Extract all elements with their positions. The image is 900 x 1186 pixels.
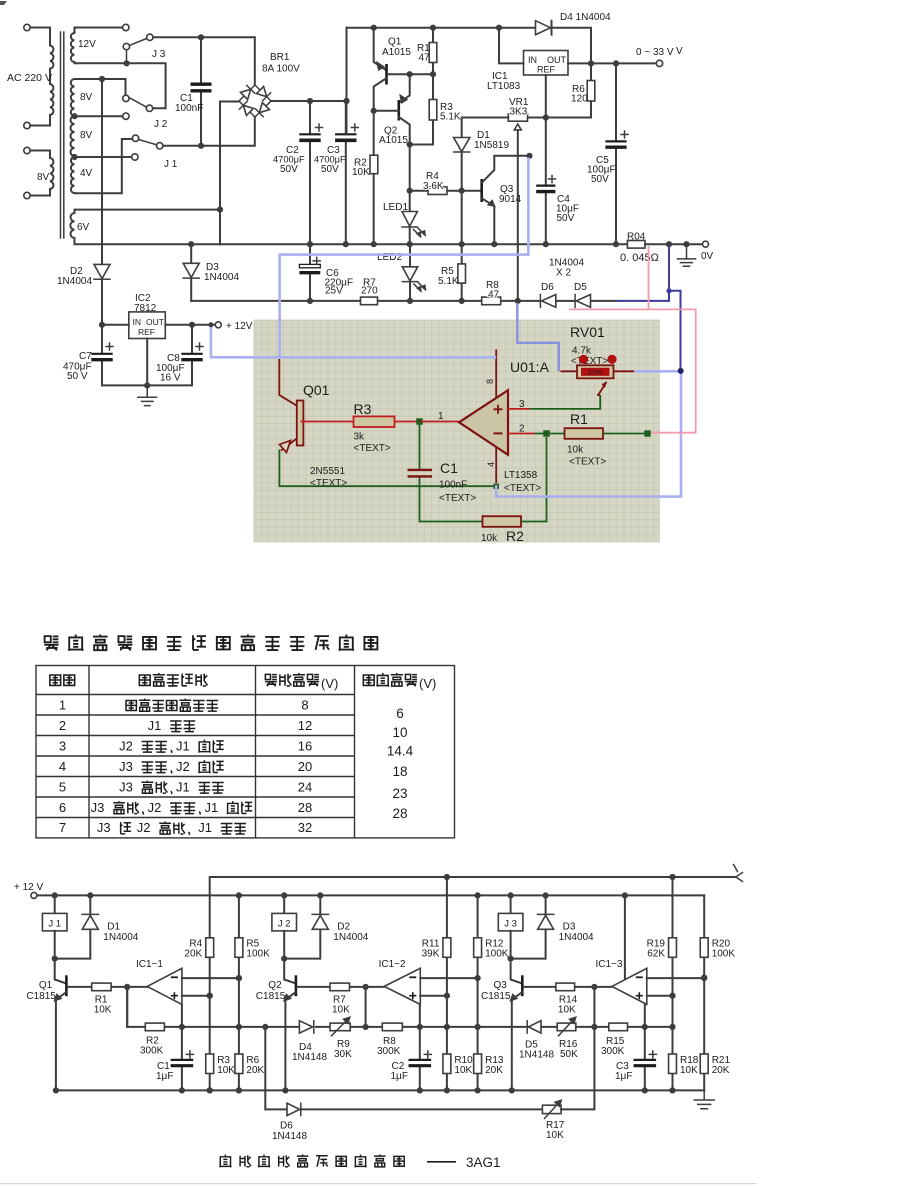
transistor Q1 [371, 25, 377, 31]
svg-text:X 2: X 2 [556, 268, 571, 279]
resistor R13 [474, 1054, 482, 1074]
capacitor C1 [200, 40, 202, 143]
svg-text:0 ~ 33 V: 0 ~ 33 V [636, 47, 674, 58]
diode D2 flyback [317, 892, 323, 898]
op-amp IC1−3 [612, 968, 647, 1004]
svg-text:V: V [676, 46, 683, 57]
lavender wiper overlay wire [517, 303, 559, 371]
svg-text:300K: 300K [377, 1046, 401, 1057]
svg-text:4700μF: 4700μF [273, 155, 305, 165]
node 4V top tap [71, 154, 77, 160]
op-amp IC1−1 [147, 968, 182, 1004]
svg-text:R1: R1 [570, 411, 588, 427]
switch J1 [132, 135, 138, 141]
wire rail after R04 [645, 243, 702, 245]
resistor R21 [700, 1054, 708, 1074]
svg-text:10K: 10K [558, 1005, 576, 1016]
svg-text:2: 2 [59, 718, 66, 733]
svg-text:9014: 9014 [499, 194, 522, 205]
svg-text:3AG1: 3AG1 [466, 1155, 501, 1170]
capacitor C5 [615, 63, 617, 244]
lavender +12V overlay wire [211, 327, 496, 357]
node pin2/R2 junction [543, 430, 549, 436]
svg-text:1: 1 [59, 697, 66, 712]
svg-text:8: 8 [301, 697, 308, 712]
svg-text:J1: J1 [176, 779, 190, 794]
terminal 12V top [123, 24, 129, 30]
wire IC1 IN to top rail [499, 28, 524, 64]
aux 8V secondary terminals [24, 147, 30, 153]
svg-text:100K: 100K [712, 949, 736, 960]
wire VR1 left to D1 [462, 118, 509, 138]
svg-text:3K3: 3K3 [510, 107, 528, 118]
svg-text:12V: 12V [78, 39, 96, 50]
svg-text:OUT: OUT [146, 317, 164, 327]
svg-text:IN: IN [528, 55, 537, 65]
wire op-amp output to feedback row [365, 987, 367, 1027]
svg-text:D1: D1 [107, 922, 120, 933]
svg-text:4: 4 [486, 462, 496, 467]
svg-text:C1815: C1815 [256, 991, 286, 1002]
wire IC2 IN [102, 324, 129, 326]
IC1 LT1083 regulator box [524, 51, 569, 76]
column R11/R10 [444, 874, 450, 880]
table status column [126, 701, 136, 711]
svg-text:300K: 300K [601, 1046, 625, 1057]
resistor R5 [461, 244, 463, 301]
capacitor C3 [345, 101, 347, 244]
svg-text:50V: 50V [321, 164, 339, 175]
svg-text:J2: J2 [137, 820, 151, 835]
simulation screenshot background [254, 320, 660, 542]
IC2 7812 box [129, 312, 166, 339]
svg-text:4V: 4V [80, 168, 93, 179]
svg-text:10K: 10K [546, 1130, 564, 1141]
svg-text:100K: 100K [246, 949, 270, 960]
node R3/C1/opamp junction [416, 418, 422, 424]
svg-text:J2: J2 [148, 800, 162, 815]
svg-text:D6: D6 [280, 1121, 293, 1132]
diode D5 [528, 1021, 541, 1033]
op-amp U01:A [459, 390, 508, 455]
resistor R3 (proteus) [301, 421, 421, 423]
svg-text:23: 23 [392, 786, 407, 801]
svg-text:D6: D6 [541, 282, 554, 293]
svg-text:20K: 20K [246, 1065, 264, 1076]
svg-text:20K: 20K [184, 949, 202, 960]
wire J3 common to bridge top [153, 37, 255, 85]
wire op-amp pin 3 [508, 408, 530, 410]
trimmer R9 [330, 1023, 350, 1031]
switch J2 [123, 95, 129, 101]
svg-text:32: 32 [298, 820, 312, 835]
wire 8V mid tap to J2 [75, 115, 123, 117]
svg-text:R04: R04 [627, 232, 646, 243]
svg-text:8: 8 [485, 379, 495, 384]
table title (Chinese) [44, 636, 58, 650]
svg-text:10: 10 [392, 725, 407, 740]
svg-text:Q2: Q2 [268, 980, 282, 991]
svg-text:J 2: J 2 [154, 119, 168, 130]
op-amp pin 8 power [495, 350, 497, 399]
resistor R6 [235, 1054, 243, 1074]
svg-text:16: 16 [298, 738, 312, 753]
resistor R4 [410, 190, 482, 192]
svg-text:16 V: 16 V [160, 373, 181, 384]
resistor R10 [443, 1054, 451, 1074]
wire D6 branch [265, 1027, 542, 1110]
node 12V tap [124, 60, 130, 66]
svg-text:J3: J3 [119, 779, 133, 794]
transistor Q3 [511, 959, 523, 984]
svg-text:<TEXT>: <TEXT> [569, 457, 606, 468]
riser raw+ to top rail [346, 28, 348, 135]
wire 4V bottom to J1 upper [75, 139, 133, 193]
diode D1 flyback [87, 892, 93, 898]
main +12V rail [37, 894, 704, 896]
svg-text:J2: J2 [176, 759, 190, 774]
output terminal 0-33V [656, 60, 662, 66]
svg-text:10K: 10K [454, 1065, 472, 1076]
node C1 top [198, 34, 204, 40]
resistor R6 [528, 63, 592, 117]
wire op-amp output to feedback row [593, 987, 595, 1027]
resistor R2 (proteus) [483, 516, 522, 527]
svg-text:10K: 10K [680, 1065, 698, 1076]
svg-text:LT1083: LT1083 [487, 81, 521, 92]
lavender feedback loop [496, 371, 681, 496]
resistor R7 base [297, 986, 384, 988]
wire op-amp output pin 1 [420, 421, 459, 423]
capacitor C4 [545, 118, 547, 245]
svg-text:10K: 10K [94, 1005, 112, 1016]
svg-text:20K: 20K [485, 1065, 503, 1076]
node 6V top tap on bridge-left column [217, 207, 223, 213]
capacitor C1 (proteus) [420, 425, 483, 522]
diode D3 flyback [543, 892, 549, 898]
wire IC2 REF [146, 339, 148, 386]
transformer T1 primary terminals [24, 24, 30, 30]
svg-text:R3: R3 [354, 401, 372, 417]
secondary 8V winding 2 [71, 116, 75, 156]
svg-text:J3: J3 [91, 800, 105, 815]
svg-text:4700μF: 4700μF [314, 155, 346, 165]
resistor R3 [410, 74, 433, 144]
svg-text:2N5551: 2N5551 [310, 466, 345, 477]
svg-text:D2: D2 [337, 922, 350, 933]
resistor R14 base [524, 986, 612, 988]
faint divider line [0, 1183, 757, 1184]
svg-text:<TEXT>: <TEXT> [571, 356, 608, 367]
svg-text:27%: 27% [588, 370, 602, 377]
svg-text:5.1K: 5.1K [440, 112, 461, 123]
resistor R2 [373, 111, 375, 244]
op-amp IC1−2 [384, 968, 420, 1004]
svg-text:270: 270 [361, 286, 378, 297]
svg-text:25V: 25V [325, 286, 343, 297]
svg-text:J 2: J 2 [278, 919, 291, 930]
svg-text:<TEXT>: <TEXT> [439, 493, 476, 504]
transistor Q1 [55, 959, 67, 984]
resistor R19 [669, 938, 677, 958]
column R12/R13 [475, 892, 481, 898]
svg-text:0. 045Ω: 0. 045Ω [620, 252, 659, 264]
transistor Q2 [284, 959, 296, 984]
op-amp IC1−1 input rows [182, 977, 239, 979]
resistor R5 [235, 938, 243, 958]
wire Q1 base row [388, 73, 433, 75]
resistor R15 [609, 1023, 628, 1031]
svg-text:8V: 8V [80, 130, 93, 141]
svg-text:1N4148: 1N4148 [292, 1052, 327, 1063]
ground bus under IC2 [102, 384, 192, 386]
svg-text:7: 7 [59, 820, 66, 835]
node C1 bottom junction [198, 143, 204, 149]
svg-text:2: 2 [519, 424, 525, 435]
svg-text:J1: J1 [148, 718, 162, 733]
wire R17 to stage3 [561, 1027, 594, 1110]
svg-text:3: 3 [519, 399, 525, 410]
wire 8V1 top tap [75, 79, 126, 95]
svg-text:10K: 10K [217, 1065, 235, 1076]
svg-text:3: 3 [59, 738, 66, 753]
svg-text:(V): (V) [419, 676, 436, 691]
wire 4V top tap to J1 [75, 156, 132, 158]
trimmer VR1 [508, 114, 527, 121]
svg-text:J 3: J 3 [504, 919, 517, 930]
lavender RV01 right overlay [634, 370, 681, 373]
svg-text:J1: J1 [205, 800, 219, 815]
svg-text:50 V: 50 V [67, 371, 88, 382]
diode D2 [101, 79, 103, 325]
transformer core [61, 32, 64, 238]
relay J3 coil [508, 892, 514, 898]
svg-text:3.6K: 3.6K [423, 181, 444, 192]
svg-text:1μF: 1μF [156, 1071, 173, 1082]
svg-text:28: 28 [392, 806, 407, 821]
svg-text:D4 1N4004: D4 1N4004 [560, 12, 611, 23]
node C2 bottom rail [307, 241, 313, 247]
wire 6V top tap [75, 210, 221, 213]
svg-text:100nF: 100nF [439, 480, 467, 491]
svg-text:J3: J3 [119, 759, 133, 774]
LED1 [409, 145, 411, 245]
svg-text:120: 120 [571, 94, 588, 105]
resistor R1 (proteus) [565, 428, 604, 439]
pink sense wire [569, 246, 696, 433]
svg-text:BR1: BR1 [270, 52, 290, 63]
resistor R18 [669, 1054, 677, 1074]
svg-text:8V: 8V [80, 92, 93, 103]
op-amp pin 4 power [495, 447, 497, 483]
resistor R2 [145, 1023, 164, 1031]
diode D5 [574, 295, 576, 308]
diode D3 [190, 244, 192, 301]
navy wire D5 to R04 [617, 246, 670, 301]
svg-text:3k: 3k [354, 432, 366, 443]
resistor R1 base [68, 986, 148, 988]
resistor R8 [382, 1023, 402, 1031]
secondary 6V winding [70, 213, 74, 238]
wire Q2 base [374, 110, 399, 112]
node D2 branch [99, 76, 105, 82]
diode D1 [454, 138, 470, 152]
top rail [347, 27, 536, 29]
svg-text:1N4004: 1N4004 [559, 932, 594, 943]
svg-text:28: 28 [298, 800, 312, 815]
svg-text:1μF: 1μF [391, 1071, 408, 1082]
svg-text:50V: 50V [280, 164, 298, 175]
svg-text:1N4004: 1N4004 [333, 932, 368, 943]
svg-text:IC1−2: IC1−2 [379, 959, 406, 970]
svg-text:4: 4 [59, 759, 66, 774]
relay J2 coil [281, 892, 287, 898]
svg-text:10K: 10K [332, 1005, 350, 1016]
svg-text:REF: REF [138, 327, 155, 337]
svg-text:7812: 7812 [134, 303, 157, 314]
switch J3 [126, 50, 128, 61]
ground symbol IC2 [138, 385, 157, 405]
wire IC1-3 V+ from rail [622, 892, 628, 898]
svg-text:+ 12 V: + 12 V [14, 882, 44, 893]
svg-text:50V: 50V [591, 174, 609, 185]
trimmer R16 [557, 1023, 576, 1031]
svg-text:D3: D3 [563, 922, 576, 933]
ground symbol 0V [678, 244, 696, 266]
ground symbol bottom right [694, 1090, 714, 1108]
svg-text:Q1: Q1 [388, 37, 402, 48]
svg-text:J2: J2 [119, 738, 133, 753]
upper interconnect rail [210, 877, 736, 938]
svg-text:20: 20 [298, 759, 312, 774]
svg-text:10K: 10K [352, 167, 370, 178]
svg-text:1N4004: 1N4004 [57, 276, 92, 287]
svg-text:<TEXT>: <TEXT> [354, 443, 391, 454]
svg-text:1N5819: 1N5819 [474, 140, 509, 151]
svg-text:<TEXT>: <TEXT> [504, 483, 541, 494]
svg-text:REF: REF [537, 65, 556, 75]
svg-text:1N4004: 1N4004 [204, 272, 239, 283]
capacitor C3 [644, 1004, 646, 1090]
LED2 [409, 244, 411, 301]
wire 12V top to terminal [75, 28, 123, 34]
table header cells [50, 675, 61, 685]
resistor R11 [443, 938, 451, 958]
diode D6 [287, 1103, 300, 1115]
svg-text:D5: D5 [574, 282, 587, 293]
node C2 top [307, 98, 313, 104]
svg-text:39K: 39K [422, 949, 440, 960]
svg-text:24: 24 [298, 779, 312, 794]
svg-text:J3: J3 [97, 820, 111, 835]
svg-text:Q3: Q3 [494, 980, 508, 991]
capacitor C7 [101, 325, 103, 386]
wire LED row y=300.9 [191, 300, 616, 302]
relay J1 coil [52, 892, 58, 898]
wire primary top lead [30, 27, 50, 29]
RV01 red terminals [579, 355, 588, 364]
svg-text:+ 12V: + 12V [226, 321, 253, 332]
potentiometer RV01 [561, 370, 635, 372]
resistor R3 [206, 1054, 214, 1074]
capacitor C1 [181, 1004, 183, 1090]
transistor Q2 [399, 74, 409, 102]
transistor Q01 [279, 359, 297, 406]
svg-text:5.1K: 5.1K [438, 276, 459, 287]
wire J1 common [163, 117, 255, 146]
svg-text:30K: 30K [334, 1049, 352, 1060]
trimmer R17 [542, 1105, 561, 1113]
secondary 12V winding [71, 33, 75, 62]
bridge rectifier BR1 [239, 85, 271, 117]
svg-text:8A 100V: 8A 100V [262, 64, 300, 75]
rail break arrow [734, 865, 743, 882]
wire IC1 REF pin [545, 75, 547, 118]
RV01 wiper arrow [599, 382, 607, 395]
svg-text:OUT: OUT [547, 55, 567, 65]
svg-text:RV01: RV01 [570, 324, 605, 340]
resistor R8 [482, 297, 501, 305]
diode D6 [539, 295, 541, 308]
column R5/R6 [236, 892, 242, 898]
node raw+ / riser [343, 98, 349, 104]
svg-text:J 3: J 3 [152, 49, 166, 60]
column R20/R21 [703, 895, 705, 1090]
svg-text:20K: 20K [712, 1065, 730, 1076]
svg-text:A1015: A1015 [379, 135, 408, 146]
svg-text:1N4148: 1N4148 [272, 1131, 307, 1142]
svg-text:<TEXT>: <TEXT> [310, 478, 347, 489]
svg-text:47: 47 [419, 53, 431, 64]
svg-text:47: 47 [488, 290, 500, 301]
svg-text:A1015: A1015 [382, 47, 411, 58]
svg-text:U01:A: U01:A [510, 359, 550, 375]
svg-text:4.7k: 4.7k [572, 346, 592, 357]
resistor R12 [474, 938, 482, 958]
diode D4 [536, 21, 551, 35]
wire op-amp pin 2 [508, 433, 535, 435]
svg-text:14.4: 14.4 [387, 744, 414, 759]
svg-text:IC1−3: IC1−3 [596, 959, 623, 970]
secondary 4V winding [71, 157, 75, 193]
svg-text:1N4004: 1N4004 [103, 932, 138, 943]
svg-text:J1: J1 [198, 820, 212, 835]
table frame [36, 666, 455, 838]
svg-text:C7: C7 [79, 351, 92, 362]
svg-text:J 1: J 1 [48, 919, 61, 930]
shunt resistor R04 [627, 241, 645, 249]
aux 8V winding coil [50, 151, 53, 196]
column R19/R18 [669, 874, 675, 880]
resistor R4 [206, 938, 214, 958]
svg-text:300K: 300K [140, 1046, 164, 1057]
svg-text:10k: 10k [481, 533, 498, 544]
resistor R7 [361, 297, 378, 305]
node C3 bottom rail [343, 241, 349, 247]
svg-text:8V: 8V [37, 172, 50, 183]
svg-text:C1815: C1815 [481, 991, 511, 1002]
feedback row wire [127, 1026, 672, 1028]
transistor Q3 [480, 179, 483, 202]
op-amp IC1−3 input rows [647, 977, 704, 979]
svg-text:62K: 62K [647, 949, 665, 960]
svg-text:5: 5 [59, 779, 66, 794]
primary winding coil [50, 28, 53, 69]
svg-text:LT1358: LT1358 [504, 470, 538, 481]
svg-text:AC 220 V: AC 220 V [7, 72, 52, 84]
svg-text:1N4148: 1N4148 [519, 1050, 554, 1061]
wire Q01 emitter green [279, 450, 494, 487]
